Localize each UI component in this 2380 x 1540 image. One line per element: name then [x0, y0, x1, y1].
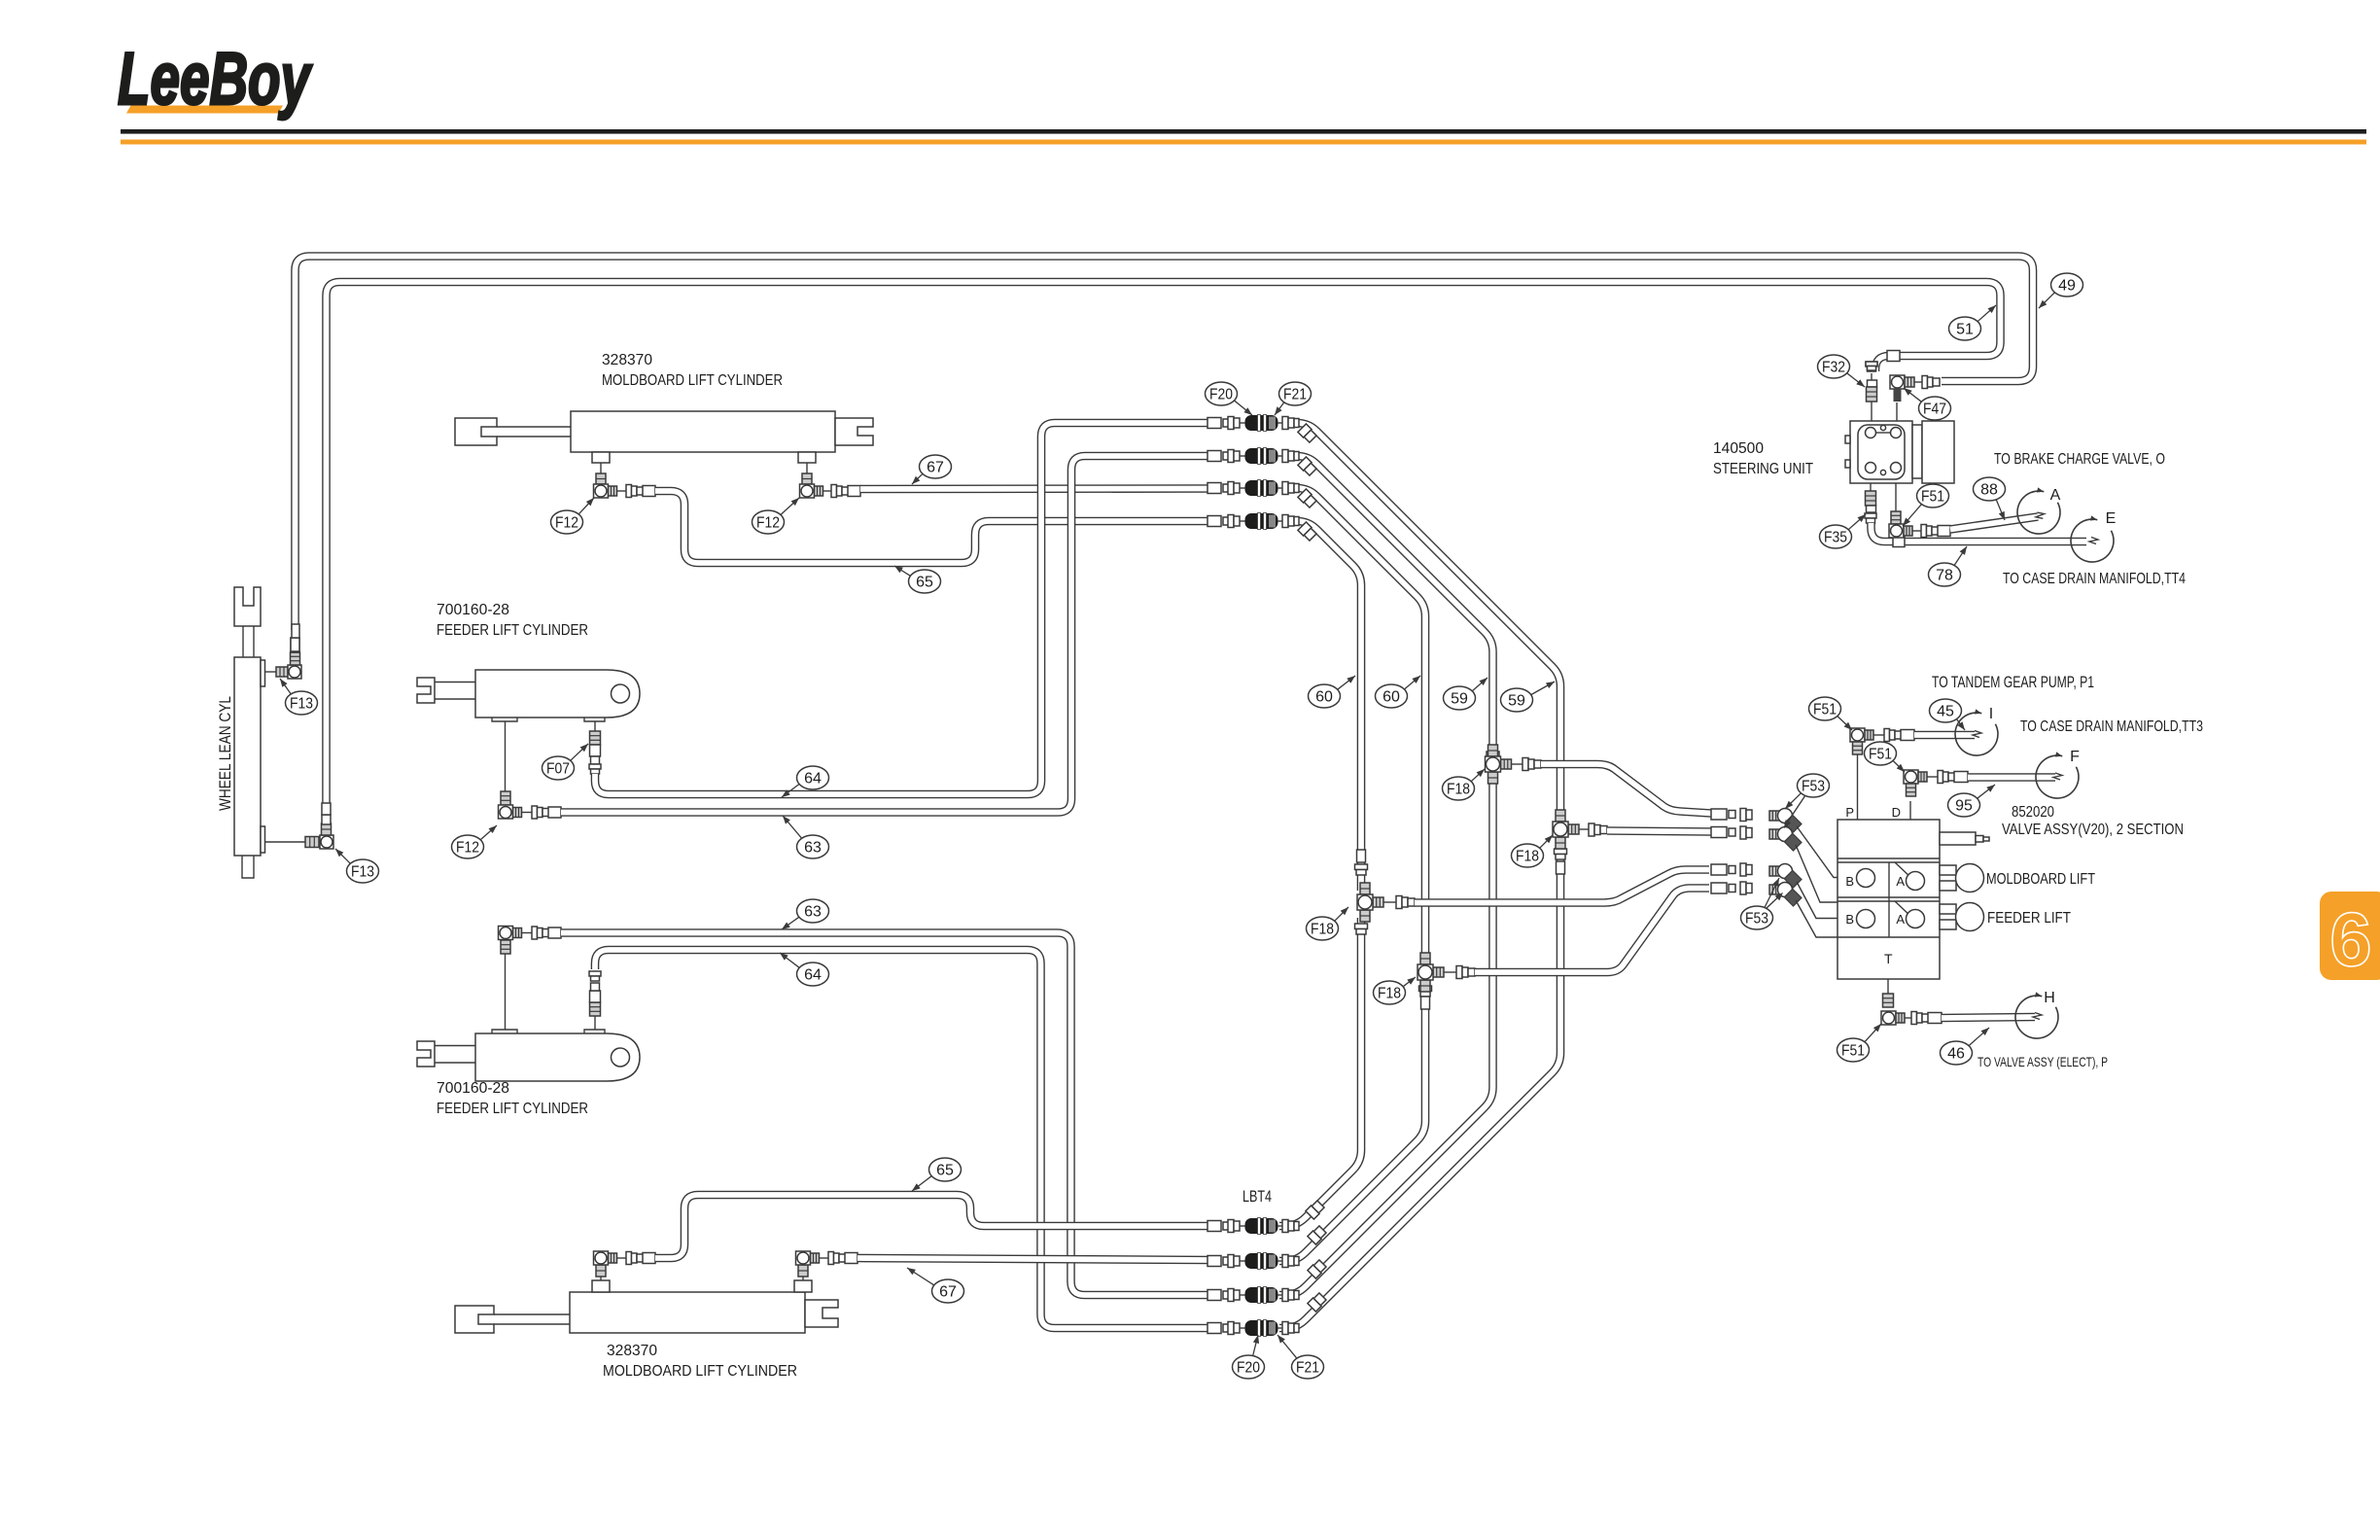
wire lower feeder left port: [505, 954, 507, 1030]
hose 78 break: [2089, 538, 2098, 544]
svg-text:63: 63: [804, 840, 822, 857]
callout 65 top: [894, 566, 941, 593]
callout 78: [1929, 546, 1968, 586]
fitting diagonal collar top 1: [1298, 424, 1317, 443]
hose 59 trunk column 3: [1279, 456, 1493, 1295]
cross fitting F18 c3: [1486, 745, 1512, 784]
fitting diagonal collar bottom 4: [1308, 1292, 1327, 1312]
callout F32: [1818, 355, 1866, 387]
fitting F07 adapter upper: [589, 731, 601, 774]
fitting F12 elbow c: [499, 791, 533, 819]
svg-text:F07: F07: [546, 761, 570, 778]
fitting hose-end 45: [1884, 729, 1914, 742]
LeeBoy logo text: [118, 38, 313, 121]
svg-text:P: P: [1845, 805, 1854, 820]
callout 95: [1948, 785, 1996, 817]
fitting F53 d: [1769, 883, 1802, 906]
fitting F07 adapter lower: [589, 971, 601, 1016]
wire bottom cyl left port: [600, 1276, 602, 1280]
fitting hose-end c: [532, 806, 561, 819]
leader F53 lower second: [1767, 892, 1783, 908]
fitting F51 elbow p2: [1904, 770, 1938, 796]
wire F53a to port B1: [1797, 826, 1865, 878]
hose 95: [1968, 773, 2062, 780]
svg-text:F51: F51: [1813, 702, 1837, 718]
fitting break column 4 below cross: [1555, 849, 1567, 874]
callout 60 a: [1309, 676, 1356, 708]
fitting F53 c: [1769, 864, 1802, 888]
header rule black: [121, 129, 2366, 134]
svg-text:VALVE ASSY(V20), 2 SECTION: VALVE ASSY(V20), 2 SECTION: [2002, 822, 2184, 838]
cross fitting F18 c4: [1417, 953, 1444, 992]
svg-text:328370: 328370: [602, 352, 652, 368]
wire upper feeder left port: [505, 721, 507, 791]
hose 65 bottom: [655, 1195, 1207, 1258]
callout 63 top: [783, 816, 829, 858]
svg-text:H: H: [2044, 990, 2055, 1006]
fitting hose-78 collar: [1893, 537, 1905, 547]
svg-text:67: 67: [939, 1284, 957, 1301]
fitting F51 elbow p1: [1850, 728, 1884, 754]
svg-text:TO CASE DRAIN MANIFOLD,TT3: TO CASE DRAIN MANIFOLD,TT3: [2020, 718, 2203, 735]
svg-text:F: F: [2070, 749, 2080, 765]
fitting F12 elbow d: [499, 927, 533, 955]
coupler top row 2: [1207, 448, 1299, 465]
flow-arrow A: [2017, 487, 2061, 534]
hose cross4 to F53-4: [1475, 889, 1709, 973]
hose 49 wheel lean to steering: [296, 257, 2034, 631]
callout F12 c: [452, 825, 498, 858]
svg-text:88: 88: [1980, 482, 1998, 499]
fitting diagonal collar top 3: [1298, 489, 1317, 508]
svg-text:F51: F51: [1921, 489, 1944, 506]
header rule orange: [121, 140, 2366, 145]
callout F18 c4: [1374, 977, 1417, 1004]
hose 64 top: [595, 423, 1207, 794]
svg-text:A: A: [1896, 912, 1905, 927]
callout F20 top: [1206, 382, 1253, 415]
label 700160-28 lower: [437, 1080, 509, 1097]
fitting hose-end 46: [1911, 1012, 1942, 1025]
callout 45: [1930, 699, 1966, 730]
coupler bottom row 1: [1207, 1218, 1299, 1235]
callout F12 a: [551, 498, 595, 534]
hose 78: [1872, 523, 2087, 542]
wire cross4 right link: [1444, 971, 1456, 973]
fitting hose-end 49: [1922, 376, 1940, 389]
callout F53 lower: [1741, 878, 1780, 929]
svg-text:F20: F20: [1209, 387, 1233, 403]
valve port A2: [1896, 910, 1924, 928]
svg-text:F18: F18: [1447, 782, 1470, 798]
svg-text:E: E: [2106, 510, 2117, 527]
svg-text:MOLDBOARD LIFT: MOLDBOARD LIFT: [1986, 871, 2095, 888]
flow-arrow E: [2071, 510, 2116, 562]
wire D riser: [1909, 801, 1911, 820]
fitting F35 adapter: [1865, 491, 1876, 523]
svg-text:F12: F12: [756, 515, 780, 532]
callout 67 top: [912, 455, 952, 484]
fitting F12 elbow e: [594, 1251, 627, 1277]
fitting F51 elbow t: [1881, 1011, 1911, 1025]
fitting diagonal collar bottom 3: [1308, 1259, 1327, 1278]
callout F21 top: [1275, 382, 1312, 415]
fitting F12 elbow f: [796, 1251, 829, 1277]
wire F53c to port B2: [1797, 882, 1865, 919]
fitting break column 2: [1419, 986, 1432, 1009]
svg-text:328370: 328370: [607, 1343, 657, 1359]
svg-text:F18: F18: [1311, 922, 1334, 938]
callout 63 bottom: [782, 899, 829, 929]
hose 51 wheel lean to steering: [327, 282, 2001, 807]
coupler top row 4: [1207, 513, 1299, 530]
hose 60 trunk column 2: [1279, 488, 1425, 1261]
cross fitting F18 c2: [1553, 810, 1579, 849]
svg-text:F21: F21: [1283, 387, 1307, 403]
fitting hose-end 88: [1921, 525, 1950, 538]
fitting F12 elbow b: [800, 473, 832, 498]
callout F51 p2: [1865, 742, 1906, 772]
fitting break column 1 below cross: [1355, 924, 1368, 934]
callout F13 bottom: [335, 849, 379, 883]
svg-text:51: 51: [1956, 322, 1974, 338]
flow-arrow I: [1955, 706, 1998, 755]
callout F20 bottom: [1233, 1335, 1265, 1379]
svg-text:F53: F53: [1745, 911, 1768, 927]
coupler bottom row 3: [1207, 1287, 1299, 1304]
svg-text:T: T: [1884, 951, 1893, 966]
label FEEDER LIFT CYLINDER lower: [437, 1101, 588, 1117]
svg-text:TO TANDEM GEAR PUMP, P1: TO TANDEM GEAR PUMP, P1: [1932, 673, 2094, 691]
fitting F13 bottom elbow: [305, 803, 333, 849]
fitting diagonal collar top 4: [1298, 522, 1317, 542]
svg-text:95: 95: [1955, 798, 1973, 815]
svg-text:65: 65: [936, 1163, 954, 1179]
svg-text:TO CASE DRAIN MANIFOLD,TT4: TO CASE DRAIN MANIFOLD,TT4: [2003, 571, 2186, 587]
wire steering bottom-left port: [1870, 483, 1872, 491]
callout 88: [1974, 477, 2006, 520]
hose 67 bottom: [857, 1258, 1207, 1260]
label TO CASE DRAIN MANIFOLD TT3: [2020, 718, 2203, 735]
label 852020: [2012, 804, 2054, 821]
svg-text:STEERING UNIT: STEERING UNIT: [1713, 461, 1813, 477]
label FEEDER LIFT: [1987, 910, 2071, 927]
fitting F32 adapter: [1866, 362, 1877, 402]
wire top cyl right port: [806, 463, 808, 473]
svg-text:LeeBoy: LeeBoy: [118, 38, 313, 121]
valve port B2: [1845, 910, 1874, 928]
svg-text:60: 60: [1382, 689, 1400, 706]
svg-text:FEEDER LIFT CYLINDER: FEEDER LIFT CYLINDER: [437, 1101, 588, 1117]
feeder lift cylinder lower: [417, 1030, 640, 1081]
callout F18 c3: [1443, 769, 1486, 800]
label FEEDER LIFT CYLINDER upper: [437, 622, 588, 639]
wire T riser: [1887, 979, 1889, 994]
svg-text:F13: F13: [351, 864, 374, 881]
valve stub moldboard: [1940, 865, 1956, 891]
svg-text:64: 64: [804, 967, 822, 984]
hose cross3 to F53-1: [1541, 764, 1711, 814]
svg-text:46: 46: [1947, 1046, 1965, 1063]
fitting F51 elbow s: [1889, 511, 1921, 538]
hose 45: [1914, 731, 1981, 738]
callout 60 b: [1376, 676, 1421, 708]
label 700160-28 upper: [437, 602, 509, 618]
fitting hose-end 51: [1866, 351, 1900, 371]
label TO TANDEM GEAR PUMP P1: [1932, 673, 2094, 691]
fitting F53 b: [1769, 827, 1802, 851]
callout 65 bottom: [912, 1158, 962, 1191]
label LBT4: [1242, 1187, 1272, 1206]
fitting hose-end F53-4: [1711, 882, 1752, 894]
svg-text:F20: F20: [1237, 1360, 1260, 1377]
svg-text:F13: F13: [290, 696, 313, 713]
callout F51 p1: [1809, 697, 1853, 730]
label 328370 bottom: [607, 1343, 657, 1359]
hose 59 trunk column 4: [1279, 423, 1560, 1328]
flow-arrow F: [2036, 749, 2080, 798]
callout 64 bottom: [780, 953, 829, 986]
fitting hose-end F53-2: [1711, 826, 1752, 839]
svg-text:I: I: [1989, 706, 1993, 722]
coupler bottom row 4: [1207, 1320, 1299, 1337]
label TO CASE DRAIN MANIFOLD TT4: [2003, 571, 2186, 587]
callout F07 upper: [542, 744, 589, 780]
svg-text:59: 59: [1508, 693, 1525, 710]
svg-text:64: 64: [804, 771, 822, 787]
hose 88: [1950, 511, 2045, 529]
label MOLDBOARD LIFT CYLINDER bottom: [603, 1363, 797, 1380]
hose 65 top: [655, 491, 1207, 563]
wire F53b to valve: [1796, 845, 1838, 902]
fitting F13 top elbow: [276, 624, 301, 679]
fitting break column 3: [1487, 752, 1499, 775]
valve label T: [1884, 951, 1893, 966]
valve relief stub: [1940, 832, 1989, 845]
callout 64 top: [782, 766, 829, 797]
fitting cross1 right nut: [1396, 896, 1415, 909]
svg-text:F18: F18: [1378, 986, 1401, 1002]
fitting break column 1 above cross: [1355, 850, 1368, 875]
callout 51: [1949, 305, 1997, 340]
callout F18 c2: [1512, 835, 1554, 867]
hose cross1 to F53-3: [1415, 870, 1709, 903]
fitting hose-end b: [831, 485, 860, 498]
wire cross2 right link: [1579, 828, 1589, 830]
wire upper feeder right port: [594, 721, 596, 731]
hose 67 top: [860, 484, 1207, 493]
svg-text:F32: F32: [1822, 360, 1845, 376]
callout 67 bottom: [907, 1268, 964, 1303]
callout 59 a: [1444, 678, 1488, 710]
svg-text:F51: F51: [1869, 747, 1892, 763]
svg-text:D: D: [1892, 805, 1901, 820]
wire top cyl left port: [600, 463, 602, 473]
fitting cross2 right nut: [1589, 823, 1607, 836]
svg-text:TO VALVE ASSY (ELECT), P: TO VALVE ASSY (ELECT), P: [1977, 1054, 2108, 1069]
svg-text:FEEDER LIFT: FEEDER LIFT: [1987, 910, 2071, 927]
wire steering top-right port: [1896, 402, 1898, 421]
fitting cross3 right nut: [1522, 758, 1541, 771]
callout F13 top: [280, 679, 318, 715]
label MOLDBOARD LIFT CYLINDER top: [602, 372, 783, 389]
label STEERING UNIT: [1713, 461, 1813, 477]
fitting F12 elbow a: [594, 473, 627, 498]
wire bottom cyl right port: [802, 1276, 804, 1280]
hose 60 trunk column 1: [1279, 521, 1361, 1226]
label WHEEL LEAN CYL: [216, 696, 234, 811]
moldboard lift cylinder bottom: [455, 1280, 838, 1333]
svg-text:65: 65: [916, 575, 933, 591]
label TO BRAKE CHARGE VALVE O: [1994, 451, 2165, 468]
svg-text:B: B: [1845, 874, 1854, 889]
hose 46: [1942, 1013, 2042, 1020]
callout 46: [1941, 1028, 1990, 1065]
feeder lift cylinder upper: [417, 670, 640, 721]
svg-text:700160-28: 700160-28: [437, 1080, 509, 1097]
label VALVE ASSY V20 2 SECTION: [2002, 822, 2184, 838]
callout F53 upper: [1785, 774, 1830, 809]
valve label D: [1892, 805, 1901, 820]
svg-text:LBT4: LBT4: [1242, 1187, 1272, 1206]
fitting T stud: [1883, 994, 1894, 1007]
flow-arrow H: [2015, 990, 2058, 1038]
svg-text:MOLDBOARD LIFT CYLINDER: MOLDBOARD LIFT CYLINDER: [603, 1363, 797, 1380]
svg-text:852020: 852020: [2012, 804, 2054, 821]
wire F53d to valve: [1796, 900, 1838, 937]
svg-text:F47: F47: [1923, 402, 1946, 418]
wire steering top-left port: [1871, 373, 1872, 421]
callout F51 s: [1903, 484, 1949, 526]
svg-text:TO BRAKE CHARGE VALVE, O: TO BRAKE CHARGE VALVE, O: [1994, 451, 2165, 468]
valve stub feeder: [1940, 904, 1956, 929]
steering unit body: [1845, 421, 1954, 483]
label 140500: [1713, 440, 1764, 457]
svg-text:67: 67: [927, 460, 944, 476]
callout 49: [2039, 273, 2083, 308]
svg-text:MOLDBOARD LIFT CYLINDER: MOLDBOARD LIFT CYLINDER: [602, 372, 783, 389]
svg-text:F21: F21: [1296, 1360, 1319, 1377]
fitting diagonal collar bottom 1: [1306, 1200, 1325, 1219]
svg-text:F53: F53: [1802, 779, 1825, 795]
svg-text:WHEEL LEAN CYL: WHEEL LEAN CYL: [216, 696, 234, 811]
callout F51 t: [1837, 1024, 1882, 1062]
fitting cross4 right nut: [1456, 966, 1475, 979]
cross fitting F18 c1: [1357, 883, 1383, 922]
hose 63 top: [561, 456, 1207, 813]
coupler bottom row 2: [1207, 1253, 1299, 1270]
svg-text:B: B: [1845, 912, 1854, 927]
svg-text:49: 49: [2058, 278, 2076, 295]
port circle feeder lift: [1956, 903, 1984, 931]
svg-text:F51: F51: [1841, 1043, 1865, 1060]
wire lower feeder right port: [594, 1016, 596, 1030]
wire wheel lean top port: [265, 671, 277, 673]
svg-text:78: 78: [1936, 568, 1953, 584]
hose 63 bottom: [561, 933, 1207, 1296]
hose cross2 to F53-2: [1607, 831, 1713, 832]
svg-text:F12: F12: [456, 840, 479, 857]
label TO VALVE ASSY ELECT P: [1977, 1054, 2108, 1069]
page tab 6: [2320, 892, 2380, 982]
LeeBoy logo orange underline: [126, 106, 283, 114]
callout F21 bottom: [1277, 1335, 1324, 1379]
svg-text:F18: F18: [1516, 849, 1539, 865]
coupler top row 3: [1207, 480, 1299, 497]
svg-text:59: 59: [1451, 691, 1468, 708]
valve label P: [1845, 805, 1854, 820]
fitting hose-end e: [626, 1252, 655, 1265]
fitting hose-end 95: [1938, 771, 1968, 784]
fitting hose-end F53-3: [1711, 863, 1752, 876]
wire cross3 right link: [1511, 763, 1522, 765]
wire wheel lean bottom port: [265, 841, 306, 843]
port circle moldboard lift: [1956, 864, 1984, 892]
fitting hose-end F53-1: [1711, 809, 1752, 822]
fitting hose-end d: [532, 927, 561, 939]
label 328370 top: [602, 352, 652, 368]
svg-text:45: 45: [1937, 704, 1954, 720]
svg-text:F35: F35: [1824, 530, 1847, 546]
moldboard lift cylinder top: [455, 411, 873, 463]
svg-text:140500: 140500: [1713, 440, 1764, 457]
hose 64 bottom: [595, 950, 1207, 1328]
callout F35: [1820, 514, 1867, 548]
callout 59 b: [1501, 682, 1556, 712]
wire P riser: [1857, 754, 1859, 820]
wire steering bottom-right port: [1895, 483, 1897, 512]
fitting diagonal collar bottom 2: [1308, 1225, 1327, 1244]
label MOLDBOARD LIFT: [1986, 871, 2095, 888]
wire cross1 right link: [1383, 901, 1396, 903]
valve assembly block: [1837, 820, 1940, 979]
svg-text:6: 6: [2329, 896, 2371, 982]
coupler top row 1: [1207, 415, 1299, 432]
wheel lean cylinder: [234, 587, 265, 878]
svg-text:FEEDER LIFT CYLINDER: FEEDER LIFT CYLINDER: [437, 622, 588, 639]
fitting F53 a: [1769, 809, 1802, 832]
callout F12 b: [752, 498, 800, 534]
svg-text:A: A: [1896, 874, 1905, 889]
fitting hose-end a: [626, 485, 655, 498]
svg-text:A: A: [2050, 487, 2061, 504]
svg-text:60: 60: [1315, 689, 1333, 706]
svg-text:63: 63: [804, 904, 822, 921]
fitting hose-end f: [828, 1252, 857, 1265]
valve port A1: [1896, 872, 1924, 891]
svg-text:700160-28: 700160-28: [437, 602, 509, 618]
svg-text:F12: F12: [555, 515, 578, 532]
leader F53 upper second: [1784, 795, 1805, 828]
callout F47: [1904, 388, 1951, 420]
fitting diagonal collar top 2: [1298, 457, 1317, 476]
fitting F47 elbow: [1890, 375, 1922, 402]
callout F18 c1: [1307, 907, 1349, 940]
valve port B1: [1845, 869, 1874, 890]
